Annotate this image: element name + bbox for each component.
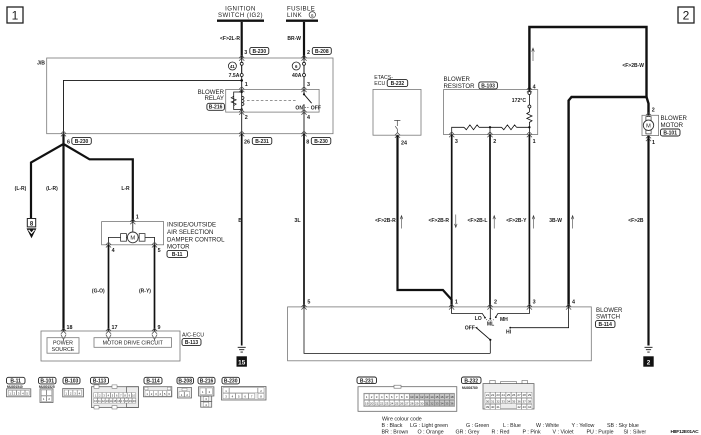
svg-text:M: M [646,124,651,130]
svg-text:2: 2 [647,359,651,366]
connector 3 B-230 [244,47,268,55]
node 1 junction [240,79,243,82]
svg-text:G : Green: G : Green [466,423,489,429]
svg-text:B-208: B-208 [315,49,329,55]
svg-text:3: 3 [244,50,247,56]
svg-text:Wire colour code: Wire colour code [382,417,422,423]
svg-text:INSIDE/OUTSIDE: INSIDE/OUTSIDE [167,222,216,229]
svg-text:43: 43 [523,405,527,409]
svg-text:B-231: B-231 [255,139,269,145]
wire pin5 to ECU [154,245,156,331]
svg-text:3B-W: 3B-W [549,218,562,224]
svg-text:SWITCH (IG2): SWITCH (IG2) [218,12,263,19]
connector B-231 [357,377,457,411]
page marker 2 [678,7,694,23]
svg-text:1: 1 [533,139,536,145]
svg-text:2: 2 [494,300,497,306]
blower relay B-216 [198,89,320,112]
thick wire blower switch pin4 to motor (3B-W) [569,97,647,307]
svg-text:B-114: B-114 [146,379,160,385]
A/C-ECU B-113 [41,331,204,361]
svg-text:4: 4 [533,84,536,90]
svg-text:15: 15 [238,359,246,366]
thermal fuse 172C [512,90,531,112]
svg-text:B-11: B-11 [172,252,183,258]
svg-text:19: 19 [365,401,369,405]
svg-text:7.5A: 7.5A [229,73,240,79]
connector 2 B-208 [307,47,331,55]
wires resistor outputs down to blower switch [451,135,453,300]
svg-text:17: 17 [112,325,118,331]
svg-text:MOTOR: MOTOR [661,122,684,129]
wire pin4 to ECU [108,245,110,331]
blower resistor B-103 [444,76,538,135]
svg-text:27: 27 [517,393,521,397]
svg-text:B-113: B-113 [93,379,107,385]
svg-text:LINK: LINK [287,12,302,19]
vertical resistor [527,112,532,127]
damper motor symbol M [109,222,155,245]
svg-text:34: 34 [507,399,511,403]
svg-text:18: 18 [67,325,73,331]
svg-text:32: 32 [496,399,500,403]
svg-text:MOTOR DRIVE CIRCUIT: MOTOR DRIVE CIRCUIT [103,341,164,347]
svg-text:26: 26 [400,401,404,405]
ETACS internal switch [394,120,400,133]
wire from node 1 left and down to exit 6 [64,80,242,133]
svg-text:40A: 40A [292,73,302,79]
svg-text:1: 1 [455,300,458,306]
svg-text:POWER: POWER [53,340,73,346]
svg-text:32: 32 [430,401,434,405]
svg-text:2: 2 [307,50,310,56]
svg-text:26: 26 [512,393,516,397]
svg-text:35: 35 [445,401,449,405]
svg-text:P : Pink: P : Pink [523,430,542,435]
svg-text:B-230: B-230 [224,379,238,385]
svg-text:12: 12 [420,395,424,399]
svg-text:(G-O): (G-O) [92,289,105,295]
relay linkage dashed [247,99,297,101]
svg-text:B-103: B-103 [481,83,495,89]
svg-text:RESISTOR: RESISTOR [444,83,476,90]
svg-text:29: 29 [528,393,532,397]
connector B-114 [144,377,172,397]
blower motor B-101 [642,115,688,136]
svg-text:ECU: ECU [374,81,385,87]
svg-text:BR : Brown: BR : Brown [382,430,409,435]
joint into motor pin 2 [647,97,649,115]
svg-text:10: 10 [410,395,414,399]
thick wire resistor pin4 up over to blower motor [529,27,646,97]
svg-text:B-114: B-114 [599,322,613,328]
svg-text:H8F12E01AC: H8F12E01AC [671,429,700,435]
svg-text:1: 1 [136,215,139,221]
wire B from 26 to ground [241,134,243,346]
svg-text:(R-Y): (R-Y) [139,289,151,295]
svg-text:<F>2B-L: <F>2B-L [467,218,487,224]
svg-text:B-11: B-11 [10,379,21,385]
svg-text:6: 6 [67,139,70,145]
connector B-103 [63,377,84,397]
relay coil [231,89,244,112]
svg-text:13: 13 [425,395,429,399]
svg-text:L-R: L-R [121,186,130,192]
svg-text:<F>2B-R: <F>2B-R [375,218,396,224]
page marker 1 [7,7,23,23]
svg-text:41: 41 [230,64,235,69]
svg-text:MOTOR: MOTOR [167,244,190,251]
svg-text:MU803780: MU803780 [462,386,478,390]
svg-text:26: 26 [244,140,250,146]
svg-text:33: 33 [502,399,506,403]
svg-text:23: 23 [385,401,389,405]
svg-text:23: 23 [496,393,500,397]
ignition switch (IG2) [217,6,264,21]
svg-text:4: 4 [572,300,575,306]
svg-text:(L-R): (L-R) [15,186,27,192]
J/B junction block box [37,58,333,134]
svg-text:1: 1 [12,9,19,23]
svg-text:21: 21 [375,401,379,405]
svg-text:J/B: J/B [37,61,45,67]
J/B exit 26 B-231 [239,131,244,136]
svg-text:BR-W: BR-W [287,36,301,42]
svg-text:O : Orange: O : Orange [418,430,444,435]
svg-text:34: 34 [440,401,444,405]
fork terminals inside ECU [61,335,66,341]
wire split from exit 6 [31,134,64,219]
svg-text:A/C-ECU: A/C-ECU [182,333,204,339]
wire 3L from 8 to blower switch [303,134,305,307]
svg-text:<F>2B: <F>2B [628,218,644,224]
svg-text:PU : Purple: PU : Purple [587,430,614,435]
svg-text:3L: 3L [294,218,301,224]
svg-text:B-101: B-101 [663,131,677,137]
svg-text:R : Red: R : Red [492,430,510,435]
svg-text:B-103: B-103 [65,379,79,385]
connector B-230 [222,377,267,400]
svg-text:(L-R): (L-R) [46,186,58,192]
svg-text:LG : Light green: LG : Light green [410,423,448,429]
blower switch B-114 [288,307,623,361]
svg-text:B-230: B-230 [252,49,266,55]
svg-text:B-216: B-216 [200,379,214,385]
horizontal resistors [452,127,530,134]
svg-text:ML: ML [487,322,494,328]
svg-text:DAMPER CONTROL: DAMPER CONTROL [167,236,225,243]
inside/outside air selection damper control motor B-11 [102,222,226,258]
svg-text:24: 24 [390,401,394,405]
svg-text:36: 36 [517,399,521,403]
svg-text:31: 31 [491,399,495,403]
svg-text:3: 3 [455,139,458,145]
svg-text:25: 25 [395,401,399,405]
fuse 6 40A [301,55,306,60]
J/B exit 8 B-230 [301,131,306,136]
svg-text:M: M [130,236,135,242]
svg-text:2: 2 [245,115,248,121]
svg-text:42: 42 [517,405,521,409]
connector B-11 [7,377,31,397]
svg-text:3: 3 [307,82,310,88]
svg-text:2: 2 [652,108,655,114]
svg-text:B-113: B-113 [185,340,199,346]
power source box [47,338,79,354]
svg-text:B : Black: B : Black [382,423,403,429]
svg-text:18: 18 [450,395,454,399]
dotted selector arc [486,319,495,321]
svg-text:<F>2L-R: <F>2L-R [220,36,240,42]
svg-text:30: 30 [420,401,424,405]
svg-text:RELAY: RELAY [204,95,224,102]
svg-text:1: 1 [652,140,655,146]
svg-text:SOURCE: SOURCE [52,347,75,353]
svg-text:B-230: B-230 [314,139,328,145]
wire colour code [382,417,647,435]
svg-text:24: 24 [502,393,506,397]
svg-text:AIR SELECTION: AIR SELECTION [167,229,213,236]
wire ignition to J/B [241,22,243,58]
svg-text:35: 35 [512,399,516,403]
svg-text:LO: LO [475,316,482,322]
svg-text:OFF: OFF [311,106,321,112]
svg-text:30: 30 [486,399,490,403]
fusible link 6 [286,6,318,21]
svg-text:BLOWER: BLOWER [444,76,471,83]
connector B-208 [177,377,194,398]
wire fusible link to J/B [303,22,305,58]
svg-text:B-208: B-208 [178,379,192,385]
svg-text:4: 4 [307,115,310,121]
svg-text:2: 2 [683,9,690,23]
svg-text:5: 5 [158,248,161,254]
svg-text:28: 28 [410,401,414,405]
svg-text:B-101: B-101 [40,379,54,385]
switch internals [304,307,490,354]
svg-text:SI : Silver: SI : Silver [624,430,647,435]
svg-text:B-230: B-230 [75,139,89,145]
svg-text:15: 15 [435,395,439,399]
svg-text:HI: HI [506,330,512,336]
J/B exit 6 B-230 [61,131,66,136]
svg-text:28: 28 [523,393,527,397]
connector B-216 [198,377,215,407]
wire 2B motor to ground 2 [647,136,649,346]
svg-text:<F>2B-Y: <F>2B-Y [506,218,527,224]
svg-text:OFF: OFF [465,326,475,332]
svg-text:2: 2 [493,139,496,145]
svg-text:<F>2B-W: <F>2B-W [622,63,644,69]
svg-text:SB : Sky blue: SB : Sky blue [607,423,639,429]
ETACS-ECU B-232 [373,75,421,135]
svg-text:33: 33 [435,401,439,405]
svg-text:16: 16 [440,395,444,399]
switch arm [475,327,478,329]
svg-text:3: 3 [533,300,536,306]
svg-text:172°C: 172°C [512,98,527,104]
svg-text:40: 40 [491,405,495,409]
svg-text:Y : Yellow: Y : Yellow [572,423,595,429]
svg-text:GR : Grey: GR : Grey [456,430,480,435]
svg-text:SWITCH: SWITCH [596,313,620,320]
ground 15 [238,347,246,352]
svg-text:38: 38 [528,399,532,403]
svg-text:B-231: B-231 [360,378,374,384]
svg-text:B-232: B-232 [464,378,478,384]
svg-text:41: 41 [496,405,500,409]
svg-text:25: 25 [507,393,511,397]
svg-text:11: 11 [415,395,418,399]
fuse 41 7.5A [228,58,243,89]
svg-text:MH: MH [500,317,508,323]
svg-text:22: 22 [380,401,384,405]
connector B-232 [462,377,535,409]
svg-text:5: 5 [307,300,310,306]
svg-text:<F>2B-R: <F>2B-R [428,218,449,224]
svg-text:44: 44 [528,405,532,409]
node: ignition entry into J/B [239,55,244,60]
off-page marker 2 [643,356,653,366]
svg-text:1: 1 [245,82,248,88]
svg-text:14: 14 [430,395,434,399]
svg-text:20: 20 [370,401,374,405]
svg-text:6: 6 [311,13,314,18]
svg-text:L : Blue: L : Blue [503,423,521,429]
connector B-113 [91,377,139,409]
svg-text:W : White: W : White [536,423,559,429]
svg-text:24: 24 [401,140,407,146]
svg-text:B-232: B-232 [391,81,405,87]
svg-text:B-216: B-216 [209,105,223,111]
svg-text:27: 27 [405,401,409,405]
wire 2B-R from ETACS to blower switch pin1 [398,135,452,307]
svg-text:21: 21 [486,393,490,397]
svg-text:22: 22 [491,393,495,397]
svg-text:29: 29 [415,401,419,405]
svg-text:8: 8 [306,140,309,146]
motor drive circuit box [94,338,172,348]
svg-text:31: 31 [425,401,429,405]
svg-text:4: 4 [112,248,115,254]
relay switch contact [295,89,321,112]
svg-text:9: 9 [158,325,161,331]
svg-text:17: 17 [445,395,449,399]
svg-text:V : Violet: V : Violet [553,430,575,435]
svg-text:37: 37 [523,399,527,403]
svg-text:BLOWER: BLOWER [661,115,688,122]
connector B-101 [39,377,57,402]
svg-text:B: B [238,218,242,224]
svg-text:36: 36 [450,401,454,405]
off-page arrow 8 [27,219,37,239]
svg-text:39: 39 [486,405,490,409]
